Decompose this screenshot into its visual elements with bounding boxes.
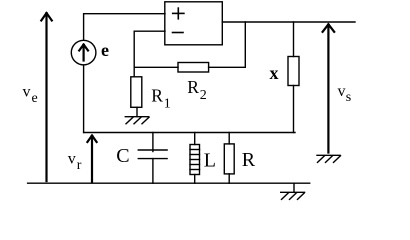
svg-text:R: R [187,77,199,97]
svg-text:v: v [68,151,76,168]
wire source top to opamp + [84,14,165,41]
resistor R1 [131,77,142,108]
ground (bottom rail) [281,183,305,199]
wire opamp output [222,21,355,23]
wire x to bus [293,86,295,133]
svg-text:e: e [101,40,109,60]
label R1 [151,86,171,112]
node bottom rail [28,182,310,184]
wire opamp inverting input [134,31,165,77]
inductor L [190,133,200,184]
ground (vs) [317,155,341,162]
wire output to x [293,22,295,57]
wire R2 right to output [209,22,246,67]
svg-text:C: C [116,145,129,167]
svg-text:r: r [77,158,82,173]
wire R1 to ground [136,107,138,116]
svg-text:2: 2 [200,88,207,103]
svg-text:e: e [32,91,38,106]
current source e [71,40,96,65]
capacitor C [138,133,167,184]
wire R2 left [134,66,178,68]
resistor x [288,57,299,86]
op-amp U1 [165,2,223,45]
label R2 [187,77,207,103]
svg-text:1: 1 [164,97,171,112]
label ve [23,84,38,106]
resistor R [224,133,234,184]
label vs [338,83,352,105]
wire source bottom to bus [83,65,85,133]
svg-text:v: v [23,84,31,101]
svg-text:v: v [338,83,346,100]
label vr [68,151,82,174]
svg-text:s: s [346,90,351,105]
node middle bus [84,132,295,134]
svg-text:x: x [270,63,279,83]
svg-text:R: R [242,149,256,171]
ground (R1) [125,117,149,124]
svg-text:L: L [204,149,216,171]
arrow vs [323,24,335,152]
svg-text:R: R [151,86,163,106]
arrow ve [41,13,52,181]
resistor R2 [178,63,209,73]
arrow vr [87,136,96,182]
